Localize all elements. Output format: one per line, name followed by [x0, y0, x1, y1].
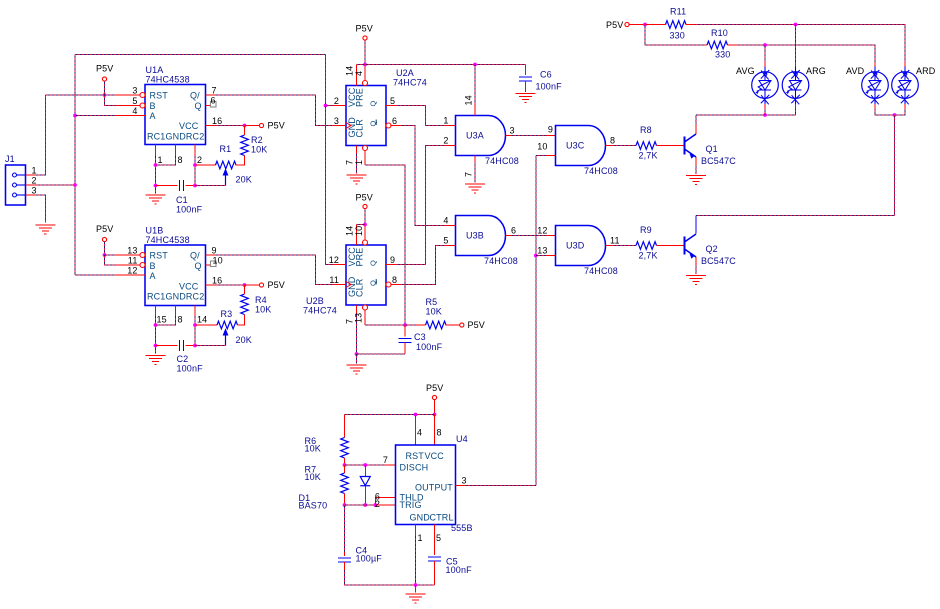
wire OUTPUT to gates	[466, 485, 536, 487]
LED ARD bottom lead	[904, 104, 906, 109]
U2A pin 4 stub PRE top	[364, 65, 366, 81]
U4 top pin numbers 4 8	[417, 428, 442, 438]
wire U1A.8 to pin1 node	[156, 156, 176, 165]
wire P5V to RST junction	[104, 81, 106, 95]
svg-text:4: 4	[132, 106, 137, 116]
svg-text:Q/: Q/	[190, 91, 200, 101]
wire P5V junction down to R10	[645, 25, 706, 46]
junction bus/U1A.A	[73, 114, 77, 118]
svg-text:13: 13	[127, 246, 137, 256]
junction pin4	[414, 413, 418, 417]
Q1 emitter lead	[695, 157, 697, 166]
ground C6	[516, 94, 536, 103]
svg-text:9: 9	[548, 125, 553, 135]
power port P5V	[363, 36, 367, 40]
ground U1A RC	[146, 195, 166, 204]
svg-text:U1A: U1A	[146, 65, 164, 75]
svg-text:2: 2	[443, 136, 448, 146]
diode D1 BAS70 top lead	[364, 465, 366, 477]
svg-text:8: 8	[178, 155, 183, 165]
junction output/U3D.13	[534, 254, 538, 258]
resistor R10 left lead	[706, 44, 707, 46]
power port P5V	[363, 204, 367, 208]
U3A pin 14 stub VCC	[474, 105, 476, 116]
U1B right pin numbers 9 10 16	[212, 246, 223, 286]
wire C2 node to R3 wiper	[195, 345, 226, 347]
svg-text:4: 4	[417, 428, 422, 438]
U2A pin 6 stub Qbar	[386, 123, 391, 128]
svg-text:RST: RST	[406, 451, 425, 461]
wire U2A.D from bus	[326, 105, 334, 107]
wire U3C.8 to R8	[612, 145, 636, 147]
resistor R2 top lead	[244, 126, 246, 136]
svg-text:100nF: 100nF	[536, 82, 563, 92]
svg-text:P5V: P5V	[96, 64, 113, 74]
capacitor C3	[399, 339, 412, 343]
diode D1 bottom lead	[364, 486, 366, 505]
junction P5V rail/PRE	[363, 63, 367, 67]
svg-text:C6: C6	[540, 70, 552, 80]
wire P5V rail to C6 drop	[525, 65, 527, 76]
junction R11/ARG	[794, 23, 798, 27]
U1B pin 11 stub B	[115, 264, 140, 266]
wire junction down to Q2 collector run	[894, 115, 896, 216]
svg-text:U3B: U3B	[466, 231, 484, 241]
junction P5V/U1B.RST	[103, 253, 107, 257]
svg-text:8: 8	[178, 315, 183, 325]
wire down to ARG	[795, 25, 797, 63]
wire U1A.16 to P5V	[216, 125, 245, 127]
power port P5V	[259, 283, 263, 287]
capacitor C4	[338, 558, 351, 562]
svg-text:BAS70: BAS70	[299, 501, 328, 511]
svg-text:10: 10	[354, 226, 364, 236]
ground U2B	[347, 365, 367, 374]
svg-text:20K: 20K	[236, 175, 252, 185]
wire bus to U1A.A	[75, 115, 115, 117]
resistor R6 10K	[341, 438, 349, 459]
svg-text:AVD: AVD	[846, 66, 865, 76]
svg-text:AVG: AVG	[736, 66, 755, 76]
junction R6/R7/DISCH	[343, 463, 347, 467]
wire Q2 emitter to ground	[695, 266, 697, 274]
LED AVG	[752, 67, 779, 105]
U1A pin 8 stub GND	[175, 145, 177, 157]
svg-text:12: 12	[127, 266, 137, 276]
wire AVD/ARD cathodes	[875, 109, 905, 115]
svg-text:C3: C3	[414, 332, 426, 342]
U4 pin 8 stub VCC	[434, 415, 436, 446]
wire U2B VCC jog	[357, 224, 366, 226]
svg-text:R1: R1	[220, 144, 232, 154]
LED ARD top lead	[904, 62, 906, 67]
U4 pin numbers 6 2	[375, 492, 380, 510]
resistor R1 right lead	[236, 156, 245, 166]
wire DISCH row	[345, 464, 386, 466]
AND gate U3D 74HC08	[556, 226, 606, 266]
resistor R11 330	[666, 21, 687, 29]
svg-text:P5V: P5V	[426, 383, 443, 393]
U2B left pin numbers 12 11	[329, 255, 339, 285]
U1A right pin numbers 7 6 16	[211, 86, 223, 127]
svg-text:Q: Q	[195, 261, 202, 271]
svg-text:100nF: 100nF	[446, 565, 473, 575]
svg-text:1: 1	[418, 533, 423, 543]
LED ARG top lead	[795, 62, 797, 67]
svg-text:3: 3	[462, 476, 467, 486]
svg-text:P5V: P5V	[468, 320, 485, 330]
svg-text:R2: R2	[251, 135, 263, 145]
AND gate U3A 74HC08	[456, 116, 506, 156]
wire to ground U2B	[356, 354, 358, 364]
U1A pin 2 stub RC2	[194, 145, 196, 157]
svg-text:VCC: VCC	[179, 121, 199, 131]
power port P5V	[625, 22, 629, 26]
U1B pin 15 stub RC1	[155, 306, 157, 317]
U2A pin 7 stub GND bottom	[356, 146, 358, 154]
wire U1A.2 down to C1	[194, 156, 196, 186]
junction gnd/C3	[355, 352, 359, 356]
svg-text:3: 3	[32, 186, 37, 196]
wire to ground U1A	[155, 186, 157, 194]
ground J1 pin3	[35, 225, 55, 234]
svg-text:555B: 555B	[451, 523, 473, 533]
svg-text:U3D: U3D	[566, 241, 585, 251]
AND gate U3B 74HC08	[456, 216, 506, 256]
wire P5V U1B down	[104, 242, 106, 256]
resistor R1 left lead	[195, 164, 216, 166]
svg-text:8: 8	[610, 136, 615, 146]
svg-text:P5V: P5V	[268, 121, 285, 131]
resistor R3 right lead	[238, 315, 245, 326]
U3A pin 7 stub GND	[474, 156, 476, 163]
U2A pin 14 stub VCC top	[356, 65, 358, 86]
junction pins 1/8	[154, 163, 158, 167]
capacitor C4 bottom lead	[344, 562, 346, 570]
U2B pin 14 stub VCC top	[356, 225, 358, 246]
capacitor C6	[519, 77, 532, 81]
U1A bottom pin numbers 1 8 2	[158, 155, 203, 165]
U3B output stub pin 6	[506, 235, 513, 237]
resistor R9 2,7K	[636, 242, 657, 250]
svg-text:U3A: U3A	[466, 131, 484, 141]
wire Q1 emitter to ground	[695, 166, 697, 174]
ground U1B RC	[146, 356, 166, 365]
junction R1 left	[193, 163, 197, 167]
U2A pin 5 stub Q	[386, 105, 396, 107]
wire P5V junction to pin5 B	[105, 95, 116, 106]
R1 wiper arrow	[223, 170, 227, 186]
wire U1B.14 down to C2	[194, 316, 196, 346]
U2B right pin numbers 9 8	[390, 255, 397, 285]
U3A pin 2 stub	[446, 145, 456, 147]
svg-text:ARG: ARG	[806, 66, 826, 76]
wire bus down to U2B.D	[326, 55, 334, 265]
capacitor C6 bottom lead	[525, 81, 527, 92]
junction pins 15/8	[154, 323, 158, 327]
svg-text:U4: U4	[456, 434, 468, 444]
svg-text:U3C: U3C	[566, 141, 585, 151]
U3B input pin numbers 4 5	[443, 216, 448, 246]
wire P5V junction to pin11	[105, 255, 116, 265]
wire Q2 collector to right LED pair	[696, 215, 895, 217]
svg-text:A: A	[150, 111, 156, 121]
svg-text:RC1GNDRC2: RC1GNDRC2	[147, 292, 204, 302]
svg-text:TRIG: TRIG	[400, 500, 422, 510]
svg-text:5: 5	[132, 96, 137, 106]
U1A pin 3 stub RST	[115, 94, 140, 96]
capacitor C3 bottom lead	[404, 343, 406, 355]
power port P5V	[102, 77, 106, 81]
U2A rotated pin names	[347, 87, 378, 137]
LED AVG bottom lead	[764, 104, 766, 109]
wire P5V U2A down	[364, 40, 366, 65]
wire U1A.RST row	[45, 94, 115, 96]
svg-text:11: 11	[610, 236, 620, 246]
wire AVG cathode drop	[764, 109, 766, 115]
wire P5V rail to U3A.14	[474, 65, 476, 105]
svg-text:5: 5	[436, 533, 441, 543]
U1B pin 13 stub RST	[115, 254, 140, 256]
wire U2B.7 down	[356, 313, 358, 354]
svg-text:15: 15	[157, 315, 167, 325]
wire U3A.7 to ground	[474, 162, 476, 183]
resistor R3 potentiometer 20K	[217, 321, 238, 329]
wire U2A.7 to ground	[356, 153, 358, 174]
wire P5V rail to R6	[345, 414, 435, 416]
wire to ground U4	[415, 585, 417, 593]
svg-text:3: 3	[334, 116, 339, 126]
transistor Q2 BC547C	[685, 234, 697, 258]
U3B pin 4 stub	[446, 225, 456, 227]
wire 555 output to U3C.10 vertical	[536, 155, 546, 157]
svg-text:9: 9	[212, 246, 217, 256]
svg-text:Q2: Q2	[706, 244, 718, 254]
U3C pin 9 stub	[546, 135, 556, 137]
U1B pin 8 stub GND	[175, 306, 177, 317]
IC U1B 74HC4538 body	[145, 245, 206, 306]
svg-text:7: 7	[212, 86, 217, 96]
wire U1B.16 to P5V	[216, 284, 245, 286]
wire U2B.Q to U3A.2	[396, 146, 446, 265]
svg-text:R3: R3	[221, 309, 233, 319]
wire to ground U1B	[155, 346, 157, 354]
wire U3B.6 to U3D.12	[512, 235, 546, 237]
wire U2A.Qbar to U3B.4	[401, 126, 446, 226]
svg-text:P5V: P5V	[96, 224, 113, 234]
svg-text:10K: 10K	[305, 472, 321, 482]
svg-text:10: 10	[213, 256, 223, 266]
resistor R4 10K	[241, 294, 249, 315]
junction ground rail	[414, 583, 418, 587]
svg-text:R5: R5	[426, 297, 438, 307]
Q1 collector lead	[695, 124, 697, 134]
svg-text:Q: Q	[195, 101, 202, 111]
svg-text:74HC74: 74HC74	[393, 78, 427, 88]
U2B pin 9 stub Q	[386, 264, 396, 266]
wire POR to R5	[405, 324, 416, 326]
svg-text:R4: R4	[255, 295, 267, 305]
wire P5V U2B down	[364, 209, 366, 225]
wire U2A.CLR down to POR net	[365, 165, 405, 325]
U4 pin 5 stub CTRL	[434, 525, 436, 556]
svg-text:2,7K: 2,7K	[639, 251, 658, 261]
U1B pin 10 stub Q no-connect	[206, 264, 211, 266]
resistor R7 bottom lead	[344, 494, 346, 506]
U2B pin 10 stub PRE top	[364, 225, 366, 241]
wire U1A.Q/ to U2A clock	[216, 95, 337, 126]
U1A pin 5 stub B	[115, 105, 140, 107]
junction AVG cathode	[763, 113, 767, 117]
svg-text:14: 14	[464, 95, 474, 105]
svg-text:2,7K: 2,7K	[639, 151, 658, 161]
capacitor C2 right lead	[186, 345, 196, 347]
resistor R6 top lead	[344, 415, 346, 438]
resistor R9 right lead to Q2 base	[657, 245, 685, 247]
U2A left pin numbers 2 3	[334, 96, 339, 126]
U2B pin 7 stub GND bottom	[356, 305, 358, 313]
resistor R10 330	[707, 41, 728, 49]
svg-text:5: 5	[390, 96, 395, 106]
U4 pin 3 stub OUTPUT	[456, 485, 466, 487]
svg-text:6: 6	[211, 96, 216, 106]
svg-text:B: B	[150, 261, 156, 271]
junction bus/J1.2	[73, 183, 77, 187]
wire U4.1 down	[415, 535, 417, 585]
svg-text:J1: J1	[5, 154, 15, 164]
svg-text:2: 2	[197, 155, 202, 165]
svg-text:BC547C: BC547C	[701, 256, 736, 266]
svg-text:74HC08: 74HC08	[584, 266, 618, 276]
U3C pin 10 stub	[546, 155, 556, 157]
transistor Q1 BC547C	[685, 134, 697, 158]
resistor R2 10K	[241, 135, 249, 156]
Q2 emitter lead	[695, 257, 697, 266]
svg-text:OUTPUT: OUTPUT	[415, 483, 453, 493]
wire top run to U2A.D	[75, 54, 326, 56]
svg-text:100nF: 100nF	[416, 342, 443, 352]
junction R10/AVG	[763, 43, 767, 47]
junction VCC/R2	[243, 124, 247, 128]
no-connect marker U1B.10	[211, 261, 217, 267]
Q2 collector lead	[695, 216, 697, 234]
resistor R10 right lead	[728, 44, 739, 46]
svg-text:Q: Q	[369, 101, 378, 107]
svg-text:U2A: U2A	[396, 68, 414, 78]
diode D1 BAS70	[360, 477, 370, 486]
wire AVG/ARG cathodes to Q1 collector	[696, 109, 796, 115]
svg-text:10K: 10K	[251, 145, 267, 155]
svg-text:74HC08: 74HC08	[484, 256, 518, 266]
svg-text:10: 10	[537, 142, 547, 152]
svg-text:8: 8	[392, 275, 397, 285]
svg-text:RST: RST	[150, 251, 169, 261]
svg-text:100nF: 100nF	[177, 364, 204, 374]
svg-text:12: 12	[537, 226, 547, 236]
svg-text:CLR: CLR	[355, 278, 365, 297]
svg-text:5: 5	[443, 236, 448, 246]
svg-text:U1B: U1B	[146, 226, 164, 236]
power port P5V	[259, 123, 263, 127]
ground U2A	[347, 175, 367, 184]
wire U2B.CLR to POR node	[365, 324, 405, 326]
wire U1B.Q/ to U2B clock	[216, 255, 337, 285]
junction D1 anode	[363, 463, 367, 467]
wire C4 bottom to ground rail	[345, 570, 435, 585]
resistor R5 10K	[426, 321, 447, 329]
LED AVD bottom lead	[874, 104, 876, 109]
U2B pin 13 stub CLR bottom	[363, 305, 368, 310]
U2B pin 11 clock stub	[333, 284, 346, 286]
ground U3A	[465, 184, 485, 193]
junction P5V/R11/R10	[643, 23, 647, 27]
U3D pin 13 stub	[546, 255, 556, 257]
svg-text:14: 14	[197, 315, 207, 325]
wire U1B.8 to pin15 node	[156, 316, 176, 325]
power port P5V	[432, 395, 436, 399]
svg-text:330: 330	[715, 50, 730, 60]
capacitor C5 bottom lead	[434, 561, 436, 585]
svg-text:R8: R8	[640, 125, 652, 135]
U2A pin 2 stub D	[333, 105, 346, 107]
LED ARD	[892, 67, 919, 105]
svg-text:1: 1	[443, 116, 448, 126]
svg-text:P5V: P5V	[356, 24, 373, 34]
svg-text:PRE: PRE	[355, 248, 365, 267]
svg-text:11: 11	[329, 275, 339, 285]
svg-text:CLR: CLR	[355, 119, 365, 138]
capacitor C4 top lead	[344, 552, 346, 556]
svg-text:7: 7	[464, 172, 474, 177]
resistor R7 10K	[341, 473, 349, 494]
ground Q1	[686, 176, 706, 185]
svg-text:R9: R9	[640, 225, 652, 235]
resistor R4 top lead	[244, 285, 246, 294]
svg-text:1: 1	[32, 166, 37, 176]
svg-text:74HC4538: 74HC4538	[146, 235, 190, 245]
svg-text:14: 14	[345, 66, 355, 76]
wire U3A.3 to U3C.9	[512, 135, 546, 137]
junction C1 left/ground	[154, 184, 158, 188]
svg-text:8: 8	[437, 428, 442, 438]
wire U3D.11 to R9	[612, 245, 636, 247]
U3B pin 5 stub	[446, 245, 456, 247]
J1 pin 3 stub	[26, 194, 36, 196]
wire C3 to ground node	[357, 353, 406, 355]
wire J1.1 to U1A RST riser	[35, 95, 45, 175]
IC U2A 74HC74 body	[346, 86, 386, 146]
wire U2B.Qbar to U3B.5	[401, 246, 446, 285]
power port P5V	[460, 323, 464, 327]
U2A pin 3 clock stub	[333, 125, 346, 127]
svg-text:16: 16	[212, 276, 222, 286]
svg-text:4: 4	[354, 71, 364, 76]
resistor R3 left lead	[195, 324, 217, 326]
junction R7/TRIG row	[343, 503, 347, 507]
junction POR R5/C3	[403, 323, 407, 327]
svg-text:14: 14	[345, 226, 355, 236]
svg-text:74HC08: 74HC08	[485, 156, 519, 166]
resistor R11 left lead	[645, 24, 666, 26]
U4 pin 4 stub RST	[415, 415, 417, 446]
U1B bottom pin numbers 15 8 14	[157, 315, 208, 325]
LED ARG	[782, 67, 809, 105]
svg-text:A: A	[150, 271, 156, 281]
svg-text:P5V: P5V	[606, 20, 623, 30]
capacitor C1 left lead	[156, 185, 178, 187]
U4 pin 6 THLD jog	[375, 498, 395, 506]
svg-text:1: 1	[354, 160, 364, 165]
